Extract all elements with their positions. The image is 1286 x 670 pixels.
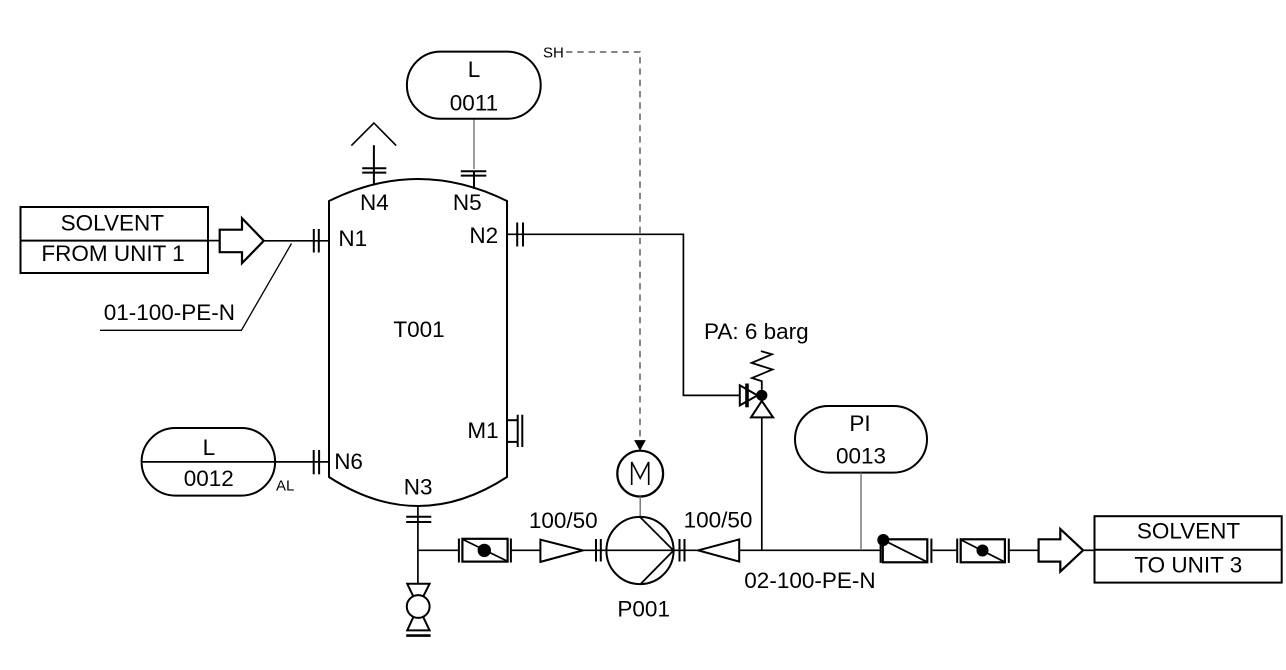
pump discharge flange bbox=[680, 539, 685, 562]
relief valve outlet cone bbox=[751, 401, 773, 418]
pipe inlet to N1 bbox=[264, 240, 330, 242]
reducer 100/50 suction bbox=[540, 540, 582, 562]
pipe stub box to inlet arrow bbox=[208, 240, 220, 242]
svg-text:0013: 0013 bbox=[836, 444, 886, 469]
svg-text:FROM UNIT 1: FROM UNIT 1 bbox=[41, 241, 184, 266]
svg-text:0011: 0011 bbox=[450, 90, 498, 115]
pump suction flange bbox=[596, 539, 601, 562]
svg-text:M1: M1 bbox=[467, 418, 498, 443]
nozzle N6 flange bbox=[314, 450, 319, 474]
svg-text:PI: PI bbox=[849, 411, 870, 436]
svg-text:N4: N4 bbox=[360, 190, 389, 215]
nozzle N3 line bbox=[417, 506, 419, 584]
svg-text:P001: P001 bbox=[617, 597, 670, 622]
vent symbol above N4 bbox=[351, 123, 396, 146]
svg-text:T001: T001 bbox=[393, 317, 444, 342]
pipe L-0012 to N6 bbox=[142, 461, 330, 463]
svg-text:AL: AL bbox=[276, 478, 294, 495]
outlet connector box SOLVENT TO UNIT 3 bbox=[1095, 516, 1282, 582]
instrument L-0011 bubble bbox=[407, 52, 541, 119]
svg-text:SOLVENT: SOLVENT bbox=[61, 211, 165, 236]
inline check box B bbox=[957, 539, 1009, 563]
nozzle N1 flange bbox=[314, 229, 319, 253]
pipe stub outlet arrow to box bbox=[1083, 549, 1094, 551]
SH dashed signal line bbox=[566, 52, 640, 441]
outlet flow arrow bbox=[1039, 529, 1084, 572]
svg-text:100/50: 100/50 bbox=[684, 508, 753, 533]
svg-text:01-100-PE-N: 01-100-PE-N bbox=[104, 300, 235, 325]
svg-text:02-100-PE-N: 02-100-PE-N bbox=[744, 568, 875, 593]
svg-text:100/50: 100/50 bbox=[529, 508, 598, 533]
svg-text:SH: SH bbox=[543, 45, 564, 62]
pipe N2 to relief valve bbox=[508, 234, 740, 395]
reducer 100/50 discharge bbox=[698, 539, 739, 561]
inline strainer box at N3 run bbox=[459, 539, 511, 563]
svg-text:L: L bbox=[203, 435, 216, 460]
svg-text:TO UNIT 3: TO UNIT 3 bbox=[1134, 552, 1242, 577]
nozzle N4 flange bbox=[362, 168, 386, 172]
motor M bbox=[617, 451, 663, 497]
svg-text:N2: N2 bbox=[469, 223, 498, 248]
nozzle N5 flange bbox=[461, 171, 487, 175]
nozzle N3 flange bbox=[406, 517, 431, 522]
inlet flow arrow bbox=[220, 218, 264, 263]
svg-text:PA: 6 barg: PA: 6 barg bbox=[704, 319, 809, 344]
svg-text:L: L bbox=[468, 57, 481, 82]
main pump suction/discharge pipe bbox=[418, 549, 1039, 551]
pump P001 bbox=[606, 517, 673, 584]
drain valve below N3 bbox=[407, 584, 429, 607]
svg-text:N6: N6 bbox=[334, 449, 363, 474]
inline check box A bbox=[881, 539, 932, 563]
nozzle N2 flange bbox=[517, 223, 523, 247]
signal arrowhead bbox=[634, 440, 646, 451]
tank T001 bbox=[329, 179, 507, 506]
inlet connector box SOLVENT FROM UNIT 1 bbox=[21, 207, 209, 273]
instrument signal line L-0011 to N5 bbox=[473, 119, 475, 170]
instrument PI-0013 bubble bbox=[795, 406, 927, 473]
relief valve spring bbox=[752, 351, 773, 390]
instrument L-0012 bubble bbox=[142, 428, 276, 496]
svg-text:N3: N3 bbox=[404, 475, 433, 500]
svg-text:0012: 0012 bbox=[184, 466, 234, 491]
node M1 manhole bbox=[507, 415, 522, 447]
relief valve PSV body bbox=[740, 385, 758, 405]
relief valve outlet line bbox=[761, 417, 763, 550]
signal line PI-0013 to pipe bbox=[860, 473, 862, 551]
svg-text:SOLVENT: SOLVENT bbox=[1137, 518, 1241, 543]
svg-text:N1: N1 bbox=[338, 226, 367, 251]
signal line motor to pump bbox=[639, 497, 641, 518]
svg-text:N5: N5 bbox=[453, 190, 482, 215]
